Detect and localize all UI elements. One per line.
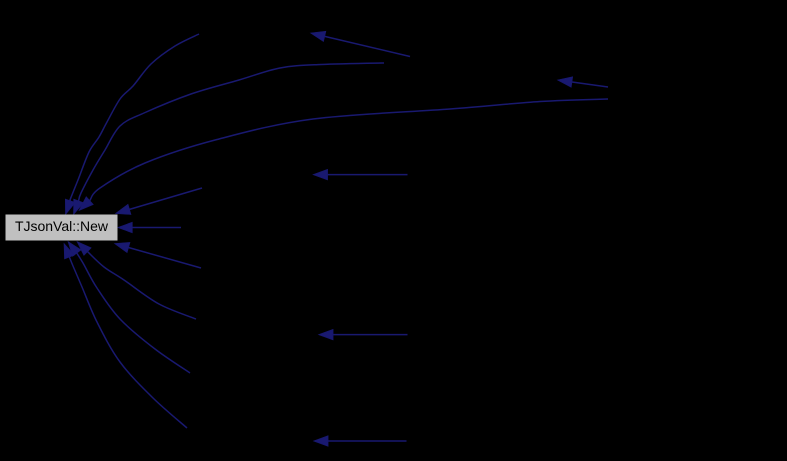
svg-text:TJsonVal::New: TJsonVal::New [15, 218, 109, 234]
